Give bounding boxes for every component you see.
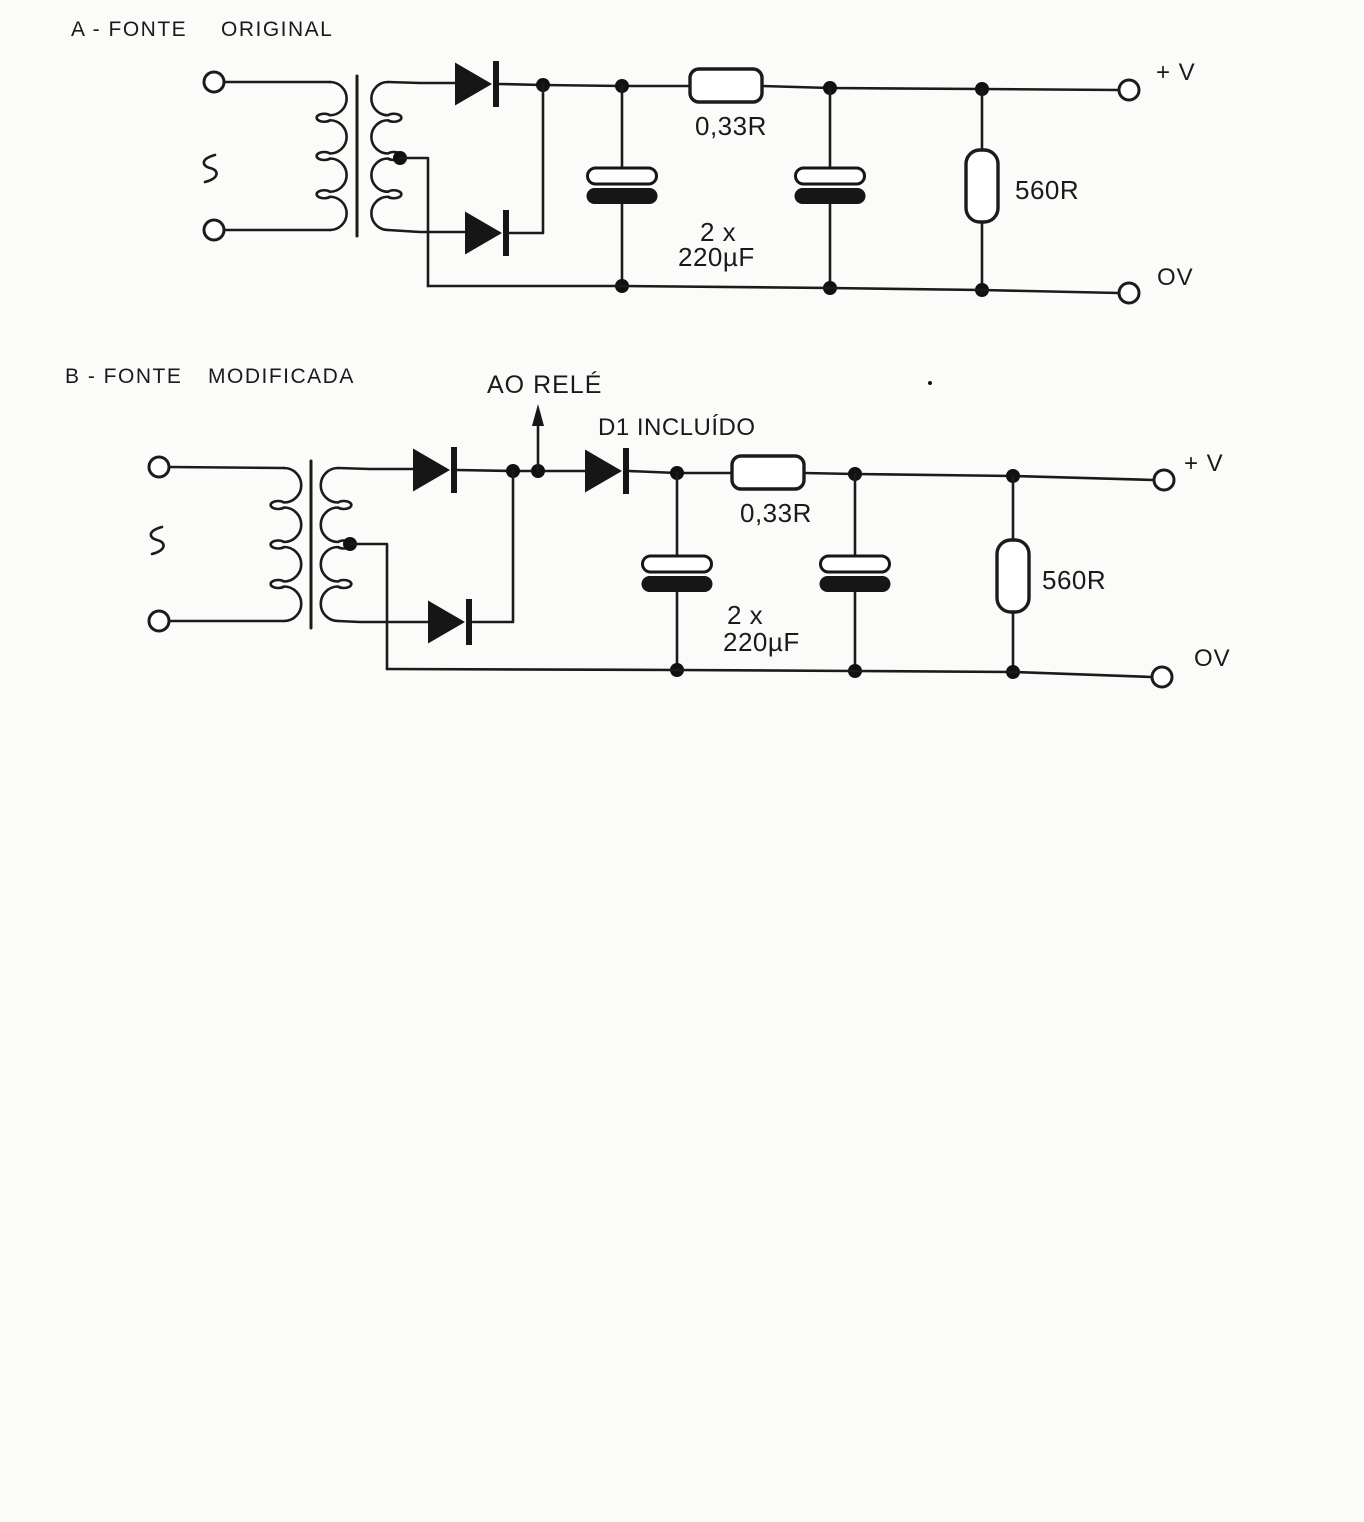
svg-text:+ V: + V <box>1184 450 1224 477</box>
node B 560R bottom <box>1006 665 1020 679</box>
node B rectifier junction <box>506 464 520 478</box>
arrowhead AO RELE <box>532 404 544 426</box>
wire B cap1 bottom lead <box>676 592 679 670</box>
transformer T1-A primary winding <box>317 82 347 230</box>
AC source squiggle A <box>204 155 217 182</box>
node B top of first capacitor <box>670 466 684 480</box>
capacitor A2 220uF <box>795 168 866 204</box>
resistor B 0,33R <box>732 456 804 489</box>
wire B cap2 top lead <box>854 474 857 556</box>
label B 2x220uF <box>723 600 800 657</box>
AC input terminal A top <box>204 72 224 92</box>
svg-text:+ V: + V <box>1156 59 1196 86</box>
title A <box>71 18 333 41</box>
wire B resistor to +V <box>804 473 1154 480</box>
wire A center tap to 0V rail <box>400 158 428 286</box>
wire A cap1 bottom lead <box>621 204 624 286</box>
svg-text:560R: 560R <box>1042 565 1106 595</box>
output terminal A +V <box>1119 80 1139 100</box>
wire B cap1 top lead <box>676 473 679 556</box>
wire A cap2 top lead <box>829 88 832 168</box>
wire B diode top cathode to D1 anode <box>457 470 585 471</box>
wire B 560R bottom lead <box>1012 612 1015 672</box>
resistor B 560R <box>997 540 1029 612</box>
node A cap2 bottom <box>823 281 837 295</box>
center tap node B <box>343 537 357 551</box>
wire B center tap to 0V rail <box>350 544 387 669</box>
svg-text:OV: OV <box>1194 645 1231 672</box>
wire A resistor to +V <box>762 86 1119 90</box>
wire A bottom rail <box>428 286 1119 293</box>
transformer T1-B core <box>310 461 313 628</box>
wire B D1 cathode to resistor <box>629 471 732 473</box>
transformer T1-A secondary winding <box>371 82 401 230</box>
resistor A 0,33R <box>690 69 762 102</box>
wire B relay tap arrow stem <box>537 425 540 471</box>
scan speck <box>928 381 932 385</box>
AC input terminal B top <box>149 457 169 477</box>
node A top of 560R <box>975 82 989 96</box>
wire A diode bottom cathode up to junction <box>509 85 543 233</box>
wire A diode top cathode to node <box>499 84 690 86</box>
node A resistor output <box>823 81 837 95</box>
svg-text:A - FONTE: A - FONTE <box>71 18 187 41</box>
wire B diode bottom cathode up to junction <box>473 471 513 622</box>
title B <box>65 365 355 388</box>
node A 560R bottom <box>975 283 989 297</box>
capacitor B2 220uF <box>820 556 891 592</box>
wire A cap2 bottom lead <box>829 204 832 288</box>
wire A cap1 top lead <box>621 86 624 168</box>
output terminal B +V <box>1154 470 1174 490</box>
wire A input bottom <box>224 229 330 232</box>
diode B top (rectifier) <box>413 447 457 493</box>
node B top of 560R <box>1006 469 1020 483</box>
center tap node A <box>393 151 407 165</box>
transformer T1-B secondary winding <box>321 468 352 621</box>
capacitor B1 220uF <box>642 556 713 592</box>
transformer T1-B primary winding <box>271 468 302 621</box>
wire A secondary top to D1 anode <box>388 82 455 83</box>
AC input terminal A bottom <box>204 220 224 240</box>
resistor A 560R <box>966 150 998 222</box>
diode D1 (added) <box>585 448 629 494</box>
wire B input bottom <box>169 620 284 623</box>
wire B secondary bottom to diode <box>338 621 428 622</box>
node B relay tap <box>531 464 545 478</box>
svg-text:D1 INCLUÍDO: D1 INCLUÍDO <box>598 414 756 441</box>
transformer T1-A core <box>356 76 359 236</box>
svg-text:2 x: 2 x <box>727 600 763 630</box>
wire B cap2 bottom lead <box>854 592 857 671</box>
svg-text:ORIGINAL: ORIGINAL <box>221 18 333 41</box>
AC source squiggle B <box>151 527 164 554</box>
diode A top (rectifier) <box>455 61 499 107</box>
node B resistor output <box>848 467 862 481</box>
wire A secondary bottom to D2 anode <box>388 230 465 232</box>
label A 2x220uF <box>678 217 755 272</box>
wire A 560R bottom lead <box>981 222 984 290</box>
node B cap2 bottom <box>848 664 862 678</box>
wire B 560R top lead <box>1012 476 1015 540</box>
wire A input top <box>224 81 330 84</box>
node A rectifier junction <box>536 78 550 92</box>
svg-text:OV: OV <box>1157 264 1194 291</box>
svg-text:560R: 560R <box>1015 175 1079 205</box>
svg-text:0,33R: 0,33R <box>740 498 812 528</box>
svg-text:0,33R: 0,33R <box>695 111 767 141</box>
output terminal B 0V <box>1152 667 1172 687</box>
wire B bottom rail <box>387 669 1152 677</box>
svg-text:220µF: 220µF <box>678 242 755 272</box>
node A top of first capacitor <box>615 79 629 93</box>
svg-text:220µF: 220µF <box>723 627 800 657</box>
svg-text:B - FONTE: B - FONTE <box>65 365 182 388</box>
output terminal A 0V <box>1119 283 1139 303</box>
wire B input top <box>169 467 284 468</box>
AC input terminal B bottom <box>149 611 169 631</box>
capacitor A1 220uF <box>587 168 658 204</box>
wire A 560R top lead <box>981 89 984 150</box>
diode A bottom (rectifier) <box>465 210 509 256</box>
node A cap1 bottom <box>615 279 629 293</box>
svg-text:MODIFICADA: MODIFICADA <box>208 365 355 388</box>
node B cap1 bottom <box>670 663 684 677</box>
wire B secondary top to rectifier diode <box>338 468 413 469</box>
diode B bottom (rectifier) <box>428 599 472 645</box>
svg-text:AO RELÉ: AO RELÉ <box>487 370 602 399</box>
